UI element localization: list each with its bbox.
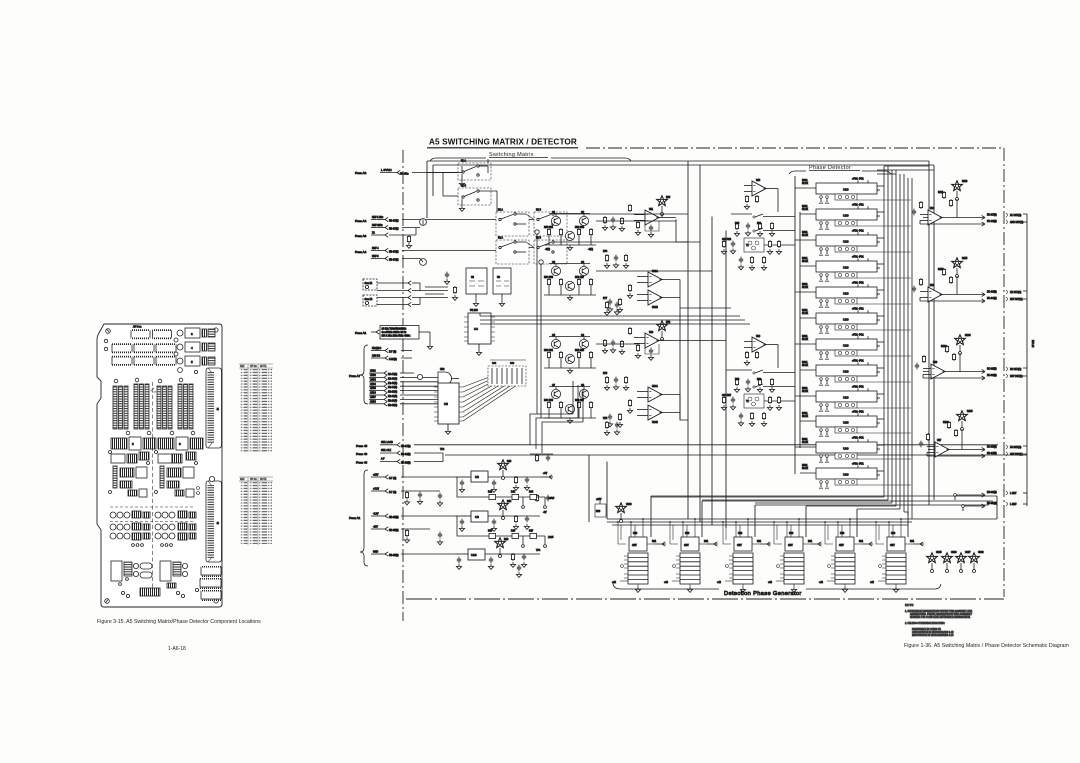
svg-text:HC-14(B): HC-14(B): [987, 298, 997, 300]
output group 2: [912, 258, 1027, 303]
svg-text:L SYNC: L SYNC: [381, 168, 393, 172]
svg-text:SWL LOAD: SWL LOAD: [381, 441, 393, 444]
svg-text:GND: GND: [373, 552, 378, 554]
PCB IC row mid: [112, 343, 176, 365]
svg-text:K2 B: K2 B: [536, 210, 541, 212]
PCB resistor pack columns: [113, 378, 195, 435]
svg-text:R30: R30: [492, 363, 497, 365]
svg-text:R77: R77: [603, 298, 608, 300]
svg-text:LHB7: LHB7: [370, 397, 376, 399]
svg-text:LHB3: LHB3: [370, 379, 376, 381]
svg-text:X3T DET(C): X3T DET(C): [1010, 376, 1023, 378]
svg-text:+12V: +12V: [373, 475, 379, 477]
svg-text:HD(A)LB: HD(A)LB: [372, 347, 382, 350]
svg-text:U9: U9: [475, 515, 479, 519]
svg-text:TP4: TP4: [536, 550, 541, 552]
op-amp U13 with adj R72: [602, 321, 672, 361]
PCB IC row U1-U2 top: [131, 326, 172, 340]
PCB centre dashed axis: [151, 382, 156, 588]
wire detector left bus: [795, 176, 816, 474]
svg-text:R47: R47: [529, 531, 534, 533]
svg-text:R45: R45: [488, 531, 493, 533]
svg-text:R50 R51: R50 R51: [544, 227, 554, 229]
svg-text:P/O A6: P/O A6: [1031, 340, 1034, 348]
PCB connector J1: [206, 368, 222, 448]
mixer cluster B: [721, 336, 795, 426]
svg-text:U14A: U14A: [652, 385, 658, 388]
svg-text:HC-16(B): HC-16(B): [987, 453, 997, 455]
svg-text:R62 R63: R62 R63: [575, 350, 585, 352]
regulator row 3 U10: [455, 538, 541, 578]
input group SWL: [356, 441, 1027, 465]
op-amp pair U14: [607, 385, 680, 427]
svg-text:U4: U4: [474, 327, 478, 331]
svg-text:K2 A: K2 A: [498, 209, 503, 212]
svg-text:HC-12(B): HC-12(B): [987, 375, 997, 377]
title A5 SWITCHING MATRIX / DETECTOR: [427, 138, 578, 148]
svg-text:REF 8: REF 8: [372, 256, 379, 258]
svg-text:LHB8: LHB8: [370, 401, 376, 403]
input From A2 J-17: [355, 168, 462, 176]
svg-text:10.2K: 10.2K: [802, 183, 808, 185]
generator counter U44: [819, 518, 873, 592]
svg-text:R101: R101: [802, 180, 808, 182]
phase detector block U31: [802, 464, 911, 489]
phase detector block U24: [802, 283, 911, 308]
svg-text:HB-15(B): HB-15(B): [389, 530, 399, 532]
switch matrix dashed boxes row2: [496, 237, 567, 265]
svg-text:U30: U30: [633, 533, 638, 535]
generator counter U40: [612, 518, 666, 592]
svg-text:K-7 (B): K-7 (B): [389, 478, 397, 480]
svg-text:HC-15m: HC-15m: [400, 174, 409, 176]
svg-text:From 46: From 46: [356, 452, 368, 456]
svg-text:1. REFERENCE DESIGNATIONS WIT: 1. REFERENCE DESIGNATIONS WITHIN THIS AS…: [905, 610, 973, 613]
label Phase Detector bracket: [789, 165, 891, 174]
generator counter U43: [768, 518, 822, 592]
svg-text:From A2: From A2: [355, 171, 367, 175]
svg-text:+5.2V: +5.2V: [373, 489, 380, 491]
svg-text:R86: R86: [757, 379, 762, 381]
svg-text:K-11(B): K-11(B): [389, 359, 397, 361]
svg-text:K-7 (B): K-7 (B): [389, 352, 397, 354]
svg-text:HC-17(B): HC-17(B): [987, 215, 997, 217]
svg-text:R44: R44: [507, 501, 512, 503]
generator block template: [612, 518, 666, 592]
regulator row 1 U8: [455, 454, 553, 492]
resistor ladder R76: [603, 373, 629, 390]
svg-text:LHB1: LHB1: [370, 371, 376, 373]
svg-text:U25: U25: [930, 285, 935, 287]
phase detector block U22: [802, 231, 911, 256]
svg-text:R48: R48: [504, 539, 509, 541]
svg-text:U12B: U12B: [652, 307, 658, 309]
svg-text:R70: R70: [666, 197, 671, 199]
svg-text:K2-14(A): K2-14(A): [388, 386, 397, 389]
svg-text:NOTE: NOTE: [260, 479, 267, 481]
svg-text:ABBREVIATED. PREFIX ABBREVIAT: ABBREVIATED. PREFIX ABBREVIATION WITH AS…: [910, 613, 972, 616]
PCB parts-list table 1: [239, 364, 273, 452]
note box From A1: [355, 326, 433, 350]
resistor ladder R77: [603, 298, 620, 315]
svg-text:+12V: +12V: [596, 499, 602, 501]
svg-text:From A3: From A3: [355, 234, 367, 238]
resistor ladder R74: [603, 251, 629, 268]
svg-text:X2T DET(C): X2T DET(C): [1010, 299, 1023, 301]
svg-text:U15: U15: [756, 180, 761, 182]
input relay group K1 K2: [363, 279, 448, 307]
transistor cluster Q7 Q8: [544, 385, 596, 423]
notes block: [905, 603, 973, 637]
svg-text:SWL CLK: SWL CLK: [381, 450, 391, 452]
svg-text:NOTE: NOTE: [260, 366, 267, 368]
power input rows From A1: [349, 470, 455, 566]
wire far right rails: [923, 161, 934, 505]
svg-text:AND DET(C): AND DET(C): [1010, 221, 1024, 224]
phase detector block U20: [802, 179, 911, 204]
phase detector block U21: [802, 205, 911, 230]
generator input circuit: [595, 499, 632, 523]
svg-text:K2-17(A): K2-17(A): [388, 373, 397, 376]
svg-text:A5 U-nn: A5 U-nn: [133, 326, 142, 329]
wire nested loops: [530, 230, 583, 453]
gate U7: [417, 369, 459, 385]
svg-text:R60 R61: R60 R61: [544, 350, 554, 352]
svg-text:From A7: From A7: [349, 374, 361, 378]
svg-text:REF 1 kHz: REF 1 kHz: [372, 217, 384, 219]
svg-text:Detection Phase Generator: Detection Phase Generator: [724, 591, 802, 597]
wire mid vertical bus: [680, 161, 731, 528]
svg-text:-5.2V: -5.2V: [373, 514, 379, 516]
svg-text:U5: U5: [444, 402, 448, 406]
output group 1: [912, 181, 1027, 226]
svg-text:LHB5: LHB5: [370, 388, 376, 390]
svg-text:From 48: From 48: [356, 461, 368, 465]
PCB parts-list table 2: [239, 477, 273, 545]
svg-text:HB-17(B): HB-17(B): [389, 252, 399, 254]
svg-text:4m+50kHz 20kHz 10 Hz: 4m+50kHz 20kHz 10 Hz: [382, 332, 408, 334]
svg-text:R90: R90: [596, 511, 601, 513]
svg-text:Figure 1-36. A5 Switching Mat: Figure 1-36. A5 Switching Matrix / Phase…: [904, 643, 1069, 649]
svg-text:R91: R91: [652, 541, 657, 543]
svg-text:L-6V5: L-6V5: [548, 498, 555, 500]
svg-text:From 45: From 45: [356, 444, 368, 448]
svg-text:R81: R81: [757, 223, 762, 225]
output group 3: [915, 335, 1027, 380]
svg-text:LVM LB: LVM LB: [372, 356, 380, 358]
svg-text:HB-17(B): HB-17(B): [401, 446, 411, 448]
svg-text:HB-12(B): HB-12(B): [401, 454, 411, 456]
mixer cluster A: [721, 180, 795, 270]
generator counter U42: [717, 518, 771, 592]
wire left border dash-dot: [402, 150, 404, 621]
phase detector block U25: [802, 309, 911, 334]
svg-text:C10 R82: C10 R82: [722, 239, 732, 241]
adjust stars bottom right: [927, 552, 985, 573]
relay switch S1 top: [458, 160, 491, 187]
svg-text:From A4: From A4: [355, 250, 367, 254]
label Switching Matrix bracket: [430, 152, 631, 161]
svg-text:U6B: U6B: [440, 369, 445, 371]
IC U4 dip: [464, 310, 495, 355]
svg-text:C306: C306: [951, 552, 957, 554]
svg-text:U24: U24: [930, 208, 935, 210]
svg-text:U14B: U14B: [652, 422, 658, 424]
input group From A4: [355, 217, 496, 265]
svg-text:R42: R42: [511, 492, 516, 494]
svg-text:R46: R46: [511, 531, 516, 533]
IC U5 vertical dip: [434, 383, 463, 434]
svg-text:K2-10(A): K2-10(A): [388, 404, 397, 407]
svg-text:R126: R126: [943, 422, 949, 424]
svg-text:R116: R116: [938, 269, 944, 271]
svg-text:REF: REF: [240, 479, 245, 481]
svg-text:K1 B: K1 B: [461, 186, 466, 188]
svg-text:REF: REF: [240, 366, 245, 368]
svg-text:HB-15(B): HB-15(B): [389, 555, 399, 557]
svg-text:-6(F): -6(F): [588, 249, 593, 251]
svg-text:X2 DET(C): X2 DET(C): [1010, 292, 1021, 294]
svg-text:L6V5: L6V5: [548, 537, 554, 539]
svg-text:HC-19(B): HC-19(B): [987, 492, 997, 494]
svg-text:20 kHz 7kHz/5kHz/1kHz: 20 kHz 7kHz/5kHz/1kHz: [382, 329, 408, 331]
svg-text:K2-12(A): K2-12(A): [388, 395, 397, 398]
svg-text:R80: R80: [735, 223, 740, 225]
svg-text:R115: R115: [962, 258, 968, 260]
svg-text:-6(F): -6(F): [545, 249, 550, 251]
generator bottom bracket: [613, 583, 941, 597]
svg-text:HP No: HP No: [250, 366, 257, 368]
svg-text:C300: C300: [626, 504, 632, 506]
svg-text:U4 16C: U4 16C: [470, 310, 478, 312]
transistor cluster Q1 Q2: [544, 212, 596, 251]
svg-text:R38: R38: [510, 363, 515, 365]
driver boxes U2 U3: [444, 268, 511, 306]
svg-text:R64 R65: R64 R65: [544, 400, 554, 402]
svg-text:R52 R53: R52 R53: [575, 227, 585, 229]
output bracket rail: [954, 214, 1034, 511]
phase detector block U29: [802, 412, 911, 437]
svg-text:-6V: -6V: [543, 512, 547, 514]
svg-text:R121: R121: [941, 346, 947, 348]
svg-text:REF 4: REF 4: [372, 248, 379, 250]
svg-text:R54 R55: R54 R55: [544, 277, 554, 279]
svg-text:100 1 kHz 2kHz 5kHz 4MHz: 100 1 kHz 2kHz 5kHz 4MHz: [382, 336, 412, 338]
output group 4: [919, 411, 1027, 458]
resistor ladder sub-row A: [457, 477, 555, 508]
svg-text:From A4: From A4: [355, 219, 367, 223]
relay switch S2: [458, 186, 497, 214]
svg-text:A5 SWITCHING MATRIX / DETECT: A5 SWITCHING MATRIX / DETECTOR: [429, 138, 577, 147]
svg-text:HC-15(B): HC-15(B): [987, 447, 997, 449]
svg-text:U16: U16: [756, 336, 761, 338]
svg-text:Gen K1: Gen K1: [365, 283, 374, 285]
svg-text:U12A: U12A: [652, 270, 658, 273]
svg-text:HC-13(B): HC-13(B): [987, 292, 997, 294]
generator counter U45: [870, 518, 924, 592]
svg-text:1-A6-18: 1-A6-18: [168, 646, 186, 652]
svg-text:HB-17(B): HB-17(B): [389, 260, 399, 262]
op-amp pair U12: [607, 270, 680, 312]
svg-text:2. UNLESS OTHERWISE INDICATED: 2. UNLESS OTHERWISE INDICATED:: [905, 622, 945, 625]
svg-text:HC-18(B): HC-18(B): [987, 221, 997, 223]
svg-text:From A1: From A1: [349, 516, 361, 520]
resistor ladder sub-row B: [457, 516, 554, 547]
svg-text:U13: U13: [649, 332, 654, 334]
PCB mid IC cluster left: [109, 437, 204, 497]
svg-text:U10: U10: [471, 553, 477, 557]
PCB mounting screws: [104, 328, 218, 603]
svg-text:C14 R87: C14 R87: [722, 395, 732, 397]
svg-text:R125: R125: [967, 411, 973, 413]
phase detector block U30: [802, 438, 911, 463]
resistor ladder R78: [603, 418, 620, 435]
svg-text:R74: R74: [603, 251, 608, 253]
svg-text:RESISTANCE IN OHMS 1/4: RESISTANCE IN OHMS 1/4: [912, 628, 942, 631]
svg-text:X4T DET(C): X4T DET(C): [1010, 454, 1023, 456]
PCB relays K1-K3: [174, 328, 215, 374]
svg-text:X4 DET(C): X4 DET(C): [1010, 447, 1021, 449]
svg-text:R41: R41: [488, 492, 493, 494]
phase detector block U27: [802, 361, 911, 386]
svg-text:NOTE: NOTE: [905, 603, 913, 607]
svg-text:X3 DET(C): X3 DET(C): [1010, 369, 1021, 371]
PCB bottom component group left: [111, 561, 199, 598]
PCB bottom ICs right: [200, 566, 221, 601]
svg-text:LHB2: LHB2: [370, 375, 376, 377]
svg-text:LHB4: LHB4: [370, 384, 376, 386]
svg-text:+6V: +6V: [543, 473, 548, 475]
wire top rails: [427, 161, 934, 218]
svg-text:R43: R43: [529, 492, 534, 494]
svg-text:R76: R76: [603, 373, 608, 375]
svg-text:C308: C308: [978, 552, 984, 554]
phase detector block row template: [802, 179, 911, 204]
svg-text:U8: U8: [475, 475, 479, 479]
svg-text:HB-15(B): HB-15(B): [389, 517, 399, 519]
svg-text:R40: R40: [507, 461, 512, 463]
svg-text:From A1: From A1: [355, 331, 367, 335]
svg-text:R85: R85: [735, 379, 740, 381]
wire opamp output drops: [676, 220, 688, 243]
svg-text:HC-11(B): HC-11(B): [987, 369, 997, 371]
wire matrix-to-detector rails: [480, 214, 750, 420]
svg-text:X1 DET(C): X1 DET(C): [1010, 215, 1021, 217]
wire top border dash-dot: [586, 147, 1004, 149]
PCB board outline A5 assembly: [97, 324, 222, 607]
svg-text:L REF: L REF: [1010, 504, 1017, 506]
svg-text:-12V: -12V: [373, 527, 378, 529]
PCB connector J2: [197, 476, 222, 562]
svg-text:HP No: HP No: [250, 479, 257, 481]
transistor cluster Q3 Q4: [544, 262, 596, 300]
svg-text:U27: U27: [937, 440, 942, 442]
svg-text:HB-17(B): HB-17(B): [389, 229, 399, 231]
wire generator rails: [589, 455, 997, 537]
svg-text:K2-13(A): K2-13(A): [388, 391, 397, 394]
svg-text:R78: R78: [603, 418, 608, 420]
svg-text:+PD1 -PD1: +PD1 -PD1: [852, 179, 864, 181]
resistor fan to dashed header: [463, 360, 526, 421]
svg-text:U20: U20: [843, 188, 849, 192]
svg-text:INDUCTANCE IN MICROHENRIES 1.2: INDUCTANCE IN MICROHENRIES 1.25: [912, 634, 954, 637]
svg-text:Figure 3-15. A5 Switching Matr: Figure 3-15. A5 Switching Matrix/Phase D…: [97, 619, 261, 625]
svg-text:CAPACITANCE IN MICROFARADS 1.2: CAPACITANCE IN MICROFARADS 1.25: [912, 631, 954, 634]
svg-text:Gen K2: Gen K2: [365, 299, 374, 301]
svg-text:K2-16(A): K2-16(A): [388, 377, 397, 380]
svg-text:K2-11(A): K2-11(A): [388, 399, 397, 402]
switch matrix dashed boxes row1: [496, 209, 567, 237]
svg-text:REF 2kHz: REF 2kHz: [372, 225, 383, 227]
svg-text:HB-13(B): HB-13(B): [401, 463, 411, 465]
svg-text:K-7 (B): K-7 (B): [389, 492, 397, 494]
op-amp U11 with adj R70: [602, 196, 672, 238]
svg-text:LHB6: LHB6: [370, 393, 376, 395]
transistor cluster Q5 Q6: [544, 335, 596, 373]
phase detector block U26: [802, 335, 911, 360]
generator counter U41: [664, 518, 718, 592]
svg-text:C307: C307: [965, 552, 971, 554]
svg-text:U26: U26: [933, 362, 938, 364]
capacitor stubs C20: [437, 493, 442, 545]
wire detector right bus: [877, 166, 934, 519]
svg-text:CNT: CNT: [632, 545, 637, 547]
input group From A7: [349, 345, 438, 407]
svg-text:HB-17(B): HB-17(B): [389, 221, 399, 223]
svg-text:C305: C305: [936, 552, 942, 554]
wire bottom border dash-dot: [406, 598, 1004, 600]
svg-text:R111: R111: [938, 192, 944, 194]
svg-text:R120: R120: [965, 335, 971, 337]
svg-text:K2-15(A): K2-15(A): [388, 382, 397, 385]
phase detector block U28: [802, 387, 911, 412]
wire right border dash-dot: [1003, 148, 1005, 597]
regulator row 2 U9: [455, 494, 550, 531]
svg-text:TP2: TP2: [440, 449, 445, 451]
svg-text:R56 R57: R56 R57: [575, 277, 585, 279]
svg-text:NUMBER FOR COMPLETE REFERENCE: NUMBER FOR COMPLETE REFERENCE DESIGNATIO…: [910, 616, 971, 619]
svg-text:R110: R110: [962, 181, 968, 183]
svg-text:K3 A: K3 A: [498, 237, 503, 240]
wire top to switches: [443, 159, 488, 196]
PCB transistor field: [110, 507, 196, 546]
phase detector block U23: [802, 257, 911, 282]
svg-text:L DET: L DET: [1010, 493, 1017, 495]
